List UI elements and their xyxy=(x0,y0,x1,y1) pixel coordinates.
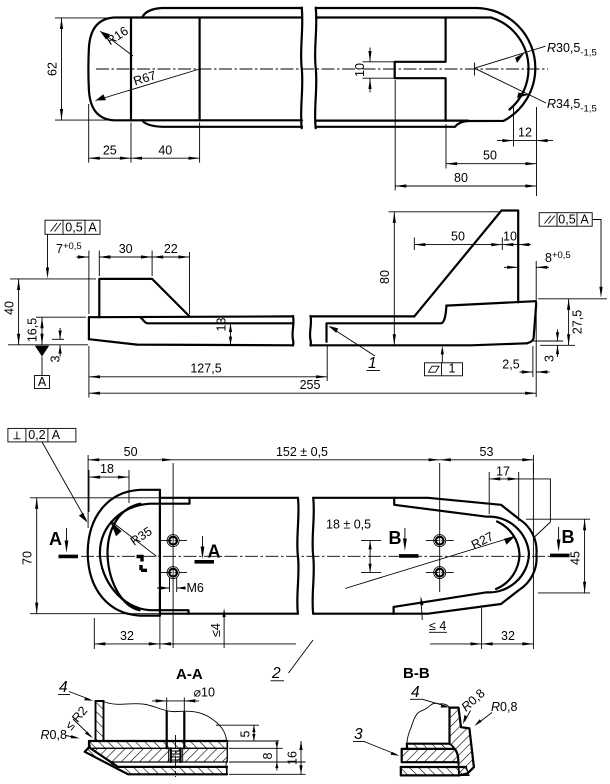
dim 32R extensions xyxy=(482,463,534,649)
outer left bulge contour xyxy=(88,490,160,616)
leader ≤4 right xyxy=(421,600,422,620)
svg-text:M6: M6 xyxy=(187,581,204,595)
section A-A right mark xyxy=(195,536,221,562)
toe edge line 40 xyxy=(199,18,201,121)
mid top edge right + right end outer contour xyxy=(313,498,536,614)
svg-text:50: 50 xyxy=(451,230,465,244)
outer contour bottom-left edge xyxy=(142,120,302,127)
svg-text:25: 25 xyxy=(103,144,117,158)
bottom edge right xyxy=(311,343,528,345)
mid top edge left segment xyxy=(160,497,298,499)
center tick end arcs xyxy=(474,63,476,76)
dim 30 line xyxy=(99,256,152,258)
bottom taper left xyxy=(89,339,293,345)
svg-text:3: 3 xyxy=(49,356,63,363)
dim 13 line xyxy=(230,323,232,345)
middle slab rounded end (B-B) xyxy=(455,749,459,762)
dim 27,5 line xyxy=(568,299,570,346)
top interface right xyxy=(311,315,415,317)
svg-text:32: 32 xyxy=(120,629,134,643)
parallelism frame right xyxy=(539,213,602,298)
svg-text:⌀10: ⌀10 xyxy=(194,686,215,700)
dim 25/40 line xyxy=(89,157,200,159)
dim 16,5 extension xyxy=(36,316,86,318)
rim contour right xyxy=(394,498,529,614)
outer contour top-left edge xyxy=(142,8,302,18)
leader R67 xyxy=(96,69,200,101)
dim 32R line xyxy=(430,643,533,645)
leader item 4 (B-B) xyxy=(423,699,447,706)
upper right sloped line xyxy=(446,301,535,305)
dim 40a arrows xyxy=(131,157,200,160)
ragged break edge (A-A) xyxy=(226,741,228,774)
svg-text:A-A: A-A xyxy=(176,666,203,683)
dim 45 line xyxy=(584,519,586,593)
dim 45 extensions xyxy=(526,519,590,593)
dim 127,5 line xyxy=(89,376,327,378)
dim 70 line xyxy=(36,498,38,614)
body top interface line xyxy=(89,315,293,318)
inner taper line (A-A) xyxy=(89,747,227,767)
extension 27,5 top xyxy=(538,298,607,300)
svg-text:255: 255 xyxy=(300,378,321,392)
dim 18±0,5 line xyxy=(369,541,371,573)
svg-text:1: 1 xyxy=(368,355,377,372)
R27 cap arc right xyxy=(496,522,520,590)
bottom strip top line (B-B) xyxy=(401,766,466,768)
leader R34,5 xyxy=(475,68,547,103)
rim/arm contour left (U arms with end steps) xyxy=(100,498,190,614)
left edge vertical xyxy=(88,317,90,339)
section B-B right mark xyxy=(550,527,575,555)
svg-text:B-B: B-B xyxy=(403,665,430,682)
dim 50 line xyxy=(414,244,502,246)
svg-text:27,5: 27,5 xyxy=(571,310,585,334)
dim 3 right extension xyxy=(533,340,563,342)
dim 80t extension xyxy=(394,80,396,191)
dim M6 arrows xyxy=(157,587,184,589)
dim 50p line xyxy=(88,459,173,461)
leader item 1 xyxy=(330,327,375,356)
dim 32L line xyxy=(94,643,296,645)
svg-text:17: 17 xyxy=(496,464,510,478)
dim 53 line xyxy=(440,459,534,461)
dim 40 line xyxy=(18,279,20,345)
dim 8+0,5 arrows xyxy=(504,266,549,268)
svg-text:A: A xyxy=(208,542,221,562)
svg-text:3: 3 xyxy=(354,726,363,743)
section plane bend marks xyxy=(137,557,148,571)
svg-text:30: 30 xyxy=(119,242,133,256)
leader R0,8 (A-A) xyxy=(66,736,77,738)
dim 50p extension xyxy=(87,455,89,528)
dim 22 line xyxy=(152,256,189,258)
svg-text:53: 53 xyxy=(480,445,494,459)
dim 255 line xyxy=(89,392,536,394)
break line right xyxy=(315,8,316,129)
svg-text:0,5: 0,5 xyxy=(558,213,575,227)
leader item 3 (B-B) xyxy=(364,742,397,755)
dim 5 extension xyxy=(216,725,279,741)
leader R16 xyxy=(100,31,133,56)
leader ≤4 left xyxy=(223,612,225,648)
svg-text:152 ± 0,5: 152 ± 0,5 xyxy=(276,445,328,459)
perpendicularity frame xyxy=(8,428,88,522)
break line right (side) xyxy=(310,316,311,346)
dim 50/10 extensions xyxy=(414,238,502,251)
svg-text:A: A xyxy=(52,428,61,442)
dim 8+0,5 extension xyxy=(535,261,537,397)
base top edge thick (B-B) xyxy=(407,743,450,745)
interlayer line (A-A) xyxy=(91,748,228,762)
svg-text:50: 50 xyxy=(483,149,497,163)
dim 8 extensions xyxy=(229,748,306,762)
hole axis right vertical xyxy=(439,463,441,592)
dim 2,5 extension xyxy=(532,346,534,377)
svg-text:40: 40 xyxy=(3,301,17,315)
base middle slab hatched (B-B) xyxy=(402,749,459,762)
svg-text:A: A xyxy=(38,375,47,389)
dim 50t line xyxy=(446,163,537,165)
dim 5 line xyxy=(253,725,255,741)
dim 50t extension xyxy=(445,124,447,169)
dim 18 line xyxy=(89,476,129,478)
svg-text:4: 4 xyxy=(59,679,68,696)
extension 27,5 bottom xyxy=(540,344,575,346)
leader ≤R2 xyxy=(73,719,91,736)
svg-text:8: 8 xyxy=(261,753,275,760)
wall and flange hatched (B-B) xyxy=(450,708,474,776)
svg-text:R0,8: R0,8 xyxy=(41,728,67,742)
fin contour xyxy=(414,211,518,317)
dim 16,5 line xyxy=(41,317,43,345)
svg-text:3: 3 xyxy=(543,355,557,362)
leader R35 xyxy=(112,522,157,557)
toe edge line 25 xyxy=(130,18,132,121)
leader item 4 (A-A) xyxy=(69,692,90,700)
dim ⌀10 extensions xyxy=(167,698,185,713)
datum A box xyxy=(35,376,50,389)
svg-text:10: 10 xyxy=(353,63,367,77)
M6 tapped hole xyxy=(171,748,181,762)
break line left xyxy=(301,8,302,129)
base outline thick (A-A) xyxy=(85,741,228,774)
parallelism frame left xyxy=(45,220,100,278)
svg-text:B: B xyxy=(389,528,402,548)
dim ⌀10 arrows xyxy=(152,700,199,702)
svg-text:12: 12 xyxy=(518,126,532,140)
inner R30.5 end arc xyxy=(492,18,529,110)
dim 62 arrows xyxy=(60,18,63,120)
right end edge xyxy=(527,301,536,343)
break line left (plan) xyxy=(297,498,298,614)
inner contour bottom edge xyxy=(142,119,468,121)
wall hatched (A-A) xyxy=(96,701,104,741)
dim 8 line xyxy=(276,740,278,771)
hole axis left vertical xyxy=(172,463,174,648)
dim 18 extensions xyxy=(89,470,129,512)
hole centermarks right xyxy=(426,541,454,573)
svg-text:45: 45 xyxy=(569,551,583,565)
upper body wavy break outline (A-A) xyxy=(104,702,227,742)
leader R30,5 xyxy=(475,46,546,68)
svg-text:A: A xyxy=(580,213,589,227)
svg-text:4: 4 xyxy=(411,684,420,701)
dim 16 line xyxy=(300,741,302,774)
svg-text:18: 18 xyxy=(100,462,114,476)
datum A stem xyxy=(41,357,43,376)
base top strip hatched (A-A) xyxy=(89,741,228,748)
svg-text:50: 50 xyxy=(124,445,138,459)
svg-text:62: 62 xyxy=(46,62,60,76)
svg-text:22: 22 xyxy=(164,242,178,256)
dims 7/30/22 extensions xyxy=(89,251,190,315)
dim 53 extension xyxy=(532,455,534,473)
dim 18±0,5 extensions xyxy=(361,541,381,573)
dim 3 left extension xyxy=(52,338,64,340)
mid bottom edge left segment xyxy=(160,613,298,615)
svg-text:32: 32 xyxy=(501,629,515,643)
outer contour right with R34.5 end arc xyxy=(316,8,535,127)
flatness frame xyxy=(425,346,463,376)
left edge extension down xyxy=(88,346,90,398)
dim 25/40 extensions xyxy=(89,104,200,163)
break line left (side) xyxy=(292,316,293,346)
svg-text:2: 2 xyxy=(271,665,281,682)
dim 16 extensions xyxy=(229,773,306,775)
inner contour top edge xyxy=(142,16,491,18)
svg-text:80: 80 xyxy=(378,270,392,284)
svg-text:≤4: ≤4 xyxy=(209,623,223,637)
base bottom strip hatched (B-B) xyxy=(401,767,469,775)
dim 70 extensions xyxy=(30,498,160,614)
svg-text:80: 80 xyxy=(454,171,468,185)
base outlines thick (B-B) xyxy=(401,744,459,776)
svg-text:≤ 4: ≤ 4 xyxy=(429,619,446,633)
dim 17 extensions xyxy=(489,472,519,521)
dim 10 slot extensions xyxy=(363,62,395,78)
dim 3 left arrows xyxy=(59,328,61,357)
break line right (plan) xyxy=(313,498,314,614)
leader item 2 xyxy=(289,640,314,673)
hole centerline (A-A) xyxy=(175,735,177,777)
upper body wavy break outline (B-B) xyxy=(407,703,450,743)
dim 7 outside arrows xyxy=(77,256,112,258)
dim 10 line xyxy=(502,244,531,246)
svg-text:R0,8: R0,8 xyxy=(491,700,517,714)
dim 25 arrows xyxy=(89,157,131,160)
svg-text:A: A xyxy=(88,221,97,235)
leader R27 xyxy=(345,537,514,589)
svg-text:70: 70 xyxy=(21,551,35,565)
svg-text:A: A xyxy=(49,529,62,549)
bulge end vertical edge xyxy=(159,490,161,616)
base middle slab hatched (A-A) xyxy=(91,748,228,762)
dim 62 line xyxy=(61,18,63,120)
centerline plan xyxy=(81,555,560,557)
dim 80t line xyxy=(395,185,536,187)
centerline xyxy=(96,68,548,70)
dim 127,5 extension xyxy=(326,346,328,381)
svg-text:0,2: 0,2 xyxy=(28,428,45,442)
dim 32L extensions xyxy=(94,613,160,649)
dim 3 right arrows xyxy=(557,330,559,358)
hole M6 left lower xyxy=(167,567,179,579)
hole M6 left upper xyxy=(167,535,179,547)
base top strip hatched (B-B) xyxy=(407,744,455,749)
svg-text:16: 16 xyxy=(286,751,300,765)
leader R0,8 rotated (B-B) xyxy=(465,711,471,722)
dim 10 slot arrow lines xyxy=(369,48,371,93)
svg-text:16,5: 16,5 xyxy=(26,318,40,342)
dim 80 extension xyxy=(389,211,501,213)
hole centermarks left xyxy=(159,541,187,573)
datum A triangle xyxy=(35,346,49,357)
sole right: edge, top, S-step xyxy=(327,306,447,342)
svg-text:10: 10 xyxy=(503,230,517,244)
dim 80 line xyxy=(393,212,395,345)
svg-text:18 ± 0,5: 18 ± 0,5 xyxy=(326,517,371,531)
dim 152 line xyxy=(173,459,440,461)
svg-text:40: 40 xyxy=(158,144,172,158)
dim 2,5 arrows xyxy=(520,371,550,373)
section B-B left mark xyxy=(389,528,419,556)
hole M6 right upper xyxy=(434,535,446,547)
hole M6 right lower xyxy=(434,567,446,579)
boss contour xyxy=(99,279,189,317)
center tick R67 xyxy=(199,63,201,75)
hole walls ⌀10 xyxy=(167,712,185,749)
dim M6 extensions xyxy=(170,578,177,592)
svg-text:1: 1 xyxy=(449,362,456,376)
sole top edge left xyxy=(140,317,293,323)
dim 12 extensions xyxy=(514,105,537,197)
base bottom strip hatched (A-A) xyxy=(85,747,227,774)
R35 cap arc xyxy=(108,504,141,611)
svg-text:0,5: 0,5 xyxy=(65,221,82,235)
dim 10 slot arrows xyxy=(368,51,371,89)
dim 62 extensions xyxy=(55,18,112,120)
svg-text:B: B xyxy=(562,527,575,547)
leader R0,8 horizontal (B-B) xyxy=(477,713,492,725)
svg-text:2,5: 2,5 xyxy=(502,357,519,371)
section A-A left mark xyxy=(49,528,78,556)
svg-text:5: 5 xyxy=(239,731,253,738)
svg-text:13: 13 xyxy=(215,318,229,332)
dim 40 extensions xyxy=(8,279,96,345)
fork slot contour xyxy=(395,18,446,121)
dim 12 line+outside arrows xyxy=(497,140,553,142)
toe rounded left end R16/R67 xyxy=(88,18,142,121)
dim 17 line + tail xyxy=(489,479,550,538)
svg-text:127,5: 127,5 xyxy=(190,362,221,376)
wall outline thick (B-B) xyxy=(450,708,474,776)
